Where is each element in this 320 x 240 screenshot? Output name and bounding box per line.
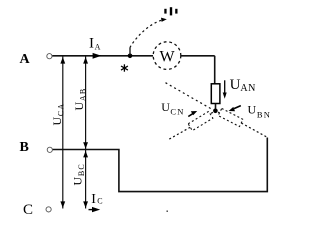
svg-text:C: C — [23, 202, 33, 218]
voltage arrow U_CN — [188, 113, 193, 116]
svg-text:U: U — [230, 77, 241, 93]
wire A horizontal left — [52, 55, 153, 57]
polarity mark * voltage coil — [164, 7, 177, 15]
resistor phase A load — [211, 84, 220, 104]
junction on line A — [128, 54, 133, 59]
label U_BC rotated — [71, 163, 87, 185]
svg-text:AN: AN — [240, 83, 255, 94]
svg-text:U: U — [71, 177, 85, 186]
dashed line W to node N — [166, 83, 212, 110]
svg-text:BN: BN — [257, 110, 271, 120]
dashed branch C near node — [210, 112, 213, 114]
node N star point — [213, 109, 218, 114]
dashed resistor phase B load — [218, 108, 243, 126]
svg-text:BC: BC — [77, 163, 86, 176]
current arrow I_A — [93, 53, 102, 59]
dashed branch B lower — [241, 123, 267, 137]
dashed lead from junction to voltage terminal — [129, 48, 131, 56]
svg-text:U: U — [72, 102, 86, 111]
terminal B — [47, 147, 52, 152]
svg-text:W: W — [160, 48, 176, 65]
label U_CA rotated — [50, 103, 66, 126]
terminal A — [47, 54, 52, 59]
svg-text:I: I — [89, 35, 94, 51]
dashed resistor phase C load — [188, 111, 213, 130]
wattmeter W — [153, 42, 181, 70]
wire A horizontal right — [181, 55, 215, 57]
dashed branch B near node — [218, 112, 220, 113]
svg-text:C: C — [97, 197, 102, 206]
svg-text:U: U — [248, 102, 257, 116]
svg-text:AB: AB — [79, 88, 88, 102]
voltage measuring line U_CA (A to C) — [62, 57, 64, 209]
svg-text:CA: CA — [56, 103, 65, 117]
stray dot on line C — [167, 211, 168, 212]
svg-text:U: U — [161, 100, 170, 114]
voltage measuring line U_AB / U_BC (A to B to C) — [85, 57, 87, 209]
svg-text:A: A — [95, 42, 101, 51]
dashed branch C lower — [168, 127, 190, 140]
wire down to resistor — [214, 56, 216, 84]
label U_AB rotated — [72, 88, 88, 111]
terminal C — [46, 207, 51, 212]
svg-text:CN: CN — [170, 106, 184, 116]
polarity mark * current coil — [121, 64, 128, 71]
current arrow I_C — [92, 207, 100, 212]
svg-text:U: U — [50, 117, 64, 126]
wire resistor to node N — [215, 104, 217, 111]
voltage arrow U_AN — [224, 80, 226, 93]
wire B path — [53, 138, 268, 192]
voltage arrow U_BN — [234, 106, 241, 109]
svg-text:A: A — [20, 52, 31, 67]
svg-text:B: B — [20, 140, 29, 155]
svg-text:I: I — [91, 192, 96, 207]
